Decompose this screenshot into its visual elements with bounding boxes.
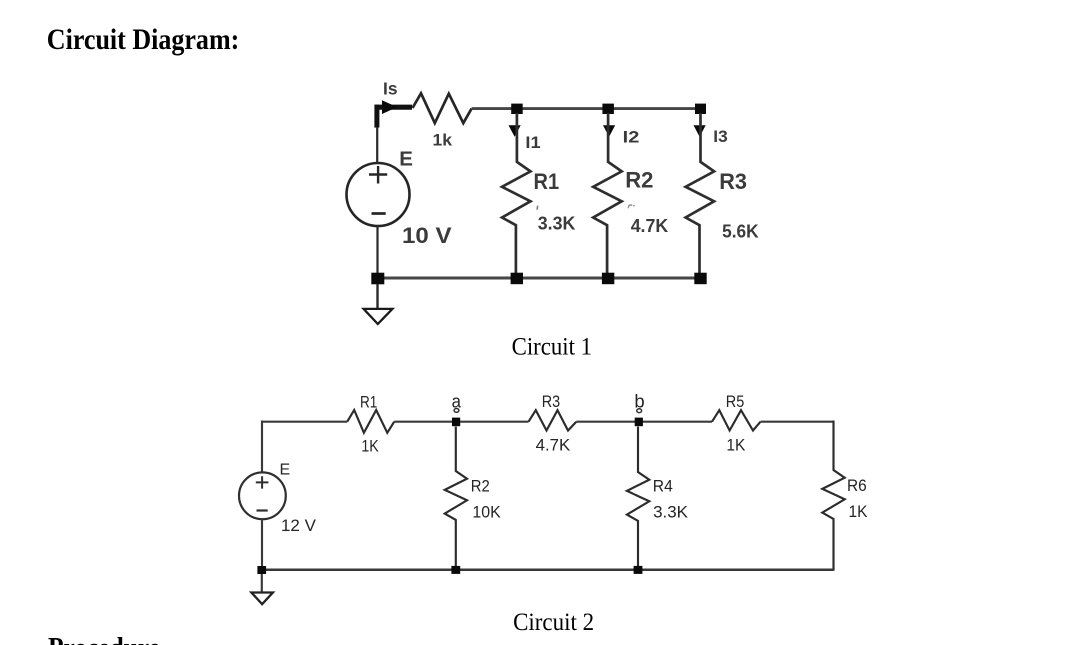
voltage source E (Circuit 2) xyxy=(239,472,286,519)
resistor R6 (Circuit 2, right branch with wires) xyxy=(822,421,844,571)
node b xyxy=(635,418,643,427)
svg-text:Is: Is xyxy=(383,79,398,99)
node junction (bottom, R2) xyxy=(602,273,614,285)
svg-text:3.3K: 3.3K xyxy=(653,503,689,522)
wire (node b to R5) xyxy=(638,421,712,423)
resistor R4 (Circuit 2, vertical at node b) xyxy=(627,427,649,566)
node junction (R1 top) xyxy=(511,104,523,114)
svg-text:R3: R3 xyxy=(542,392,560,411)
wire (R3 to node b) xyxy=(576,421,638,423)
resistor R5 (Circuit 2) xyxy=(712,410,761,430)
svg-text:1K: 1K xyxy=(849,502,869,521)
node junction (bottom left) xyxy=(257,566,266,574)
svg-text:R1: R1 xyxy=(360,392,377,411)
current arrow I2 xyxy=(603,125,615,137)
stray mark (artifact below R1 label) xyxy=(536,206,539,210)
svg-text:R3: R3 xyxy=(719,169,747,194)
svg-text:R5: R5 xyxy=(726,392,745,411)
svg-text:Circuit 2: Circuit 2 xyxy=(513,609,594,636)
node junction (R2 top) xyxy=(602,104,614,114)
svg-text:R2: R2 xyxy=(625,167,653,192)
stray mark (artifact left of R2 label) xyxy=(628,205,634,208)
svg-text:R2: R2 xyxy=(471,476,490,495)
svg-text:E: E xyxy=(399,147,413,170)
svg-text:3.3K: 3.3K xyxy=(538,214,576,234)
svg-text:R4: R4 xyxy=(653,476,673,495)
wire (node a to R3) xyxy=(456,421,529,423)
ground (Circuit 1) xyxy=(364,284,393,324)
node junction (bottom, R1) xyxy=(511,273,523,285)
svg-text:I3: I3 xyxy=(713,127,727,146)
wire (left vertical top, source to top bus) xyxy=(261,421,263,473)
wire (top bus from 1k to R3 column) xyxy=(472,107,701,110)
label b xyxy=(634,390,644,412)
svg-text:1K: 1K xyxy=(361,436,379,455)
current arrow I1 xyxy=(509,125,521,137)
svg-text:4.7K: 4.7K xyxy=(631,216,669,236)
resistor R3 (Circuit 1) xyxy=(686,113,715,273)
node junction (bottom, R3) xyxy=(694,273,706,285)
voltage source E (Circuit 1) xyxy=(347,163,410,226)
current arrow I3 xyxy=(694,125,706,137)
wire (top bus, left corner to R1) xyxy=(262,421,347,423)
svg-text:12 V: 12 V xyxy=(281,517,316,535)
svg-text:Circuit Diagram:: Circuit Diagram: xyxy=(47,23,240,56)
svg-text:I2: I2 xyxy=(623,127,640,146)
wire (source bottom to bottom bus) xyxy=(376,226,378,278)
ground (Circuit 2) xyxy=(251,574,273,604)
wire (bottom bus) xyxy=(378,277,701,280)
svg-text:I1: I1 xyxy=(525,133,540,152)
svg-text:Procedure: Procedure xyxy=(48,632,160,645)
node junction (bottom, source) xyxy=(371,273,384,285)
resistor R2 (Circuit 1) xyxy=(593,113,622,273)
node junction (bottom, node b column) xyxy=(634,566,643,574)
svg-text:Circuit 1: Circuit 1 xyxy=(512,333,592,360)
wire (left vertical, source top, thin lower part) xyxy=(376,127,378,164)
node junction (bottom, node a column) xyxy=(451,566,460,574)
svg-text:5.6K: 5.6K xyxy=(722,222,759,242)
svg-text:4.7K: 4.7K xyxy=(536,436,571,455)
resistor R3 (Circuit 2) xyxy=(529,410,577,430)
current arrow Is xyxy=(375,100,412,114)
wire (left vertical, source top, thick upper part) xyxy=(374,105,379,128)
wire (R5 to right corner) xyxy=(761,421,834,423)
node a xyxy=(452,418,460,427)
resistor R1 (Circuit 1) xyxy=(502,113,531,273)
svg-text:R6: R6 xyxy=(847,476,867,495)
resistor R2 (Circuit 2, vertical at node a) xyxy=(445,427,467,566)
svg-text:R1: R1 xyxy=(534,169,560,194)
resistor R1 (Circuit 2) xyxy=(347,410,394,433)
svg-text:E: E xyxy=(280,462,291,479)
svg-text:10K: 10K xyxy=(472,502,501,521)
svg-text:1k: 1k xyxy=(433,131,453,149)
node junction (R3 top) xyxy=(695,104,706,114)
label a xyxy=(452,391,462,413)
resistor 1k (Circuit 1) xyxy=(413,93,472,123)
svg-text:10 V: 10 V xyxy=(402,223,452,248)
wire (source bottom to bottom bus) xyxy=(261,519,263,569)
svg-text:1K: 1K xyxy=(726,435,746,454)
wire (bottom bus) xyxy=(262,568,834,571)
wire (R1 to node a) xyxy=(394,421,456,423)
